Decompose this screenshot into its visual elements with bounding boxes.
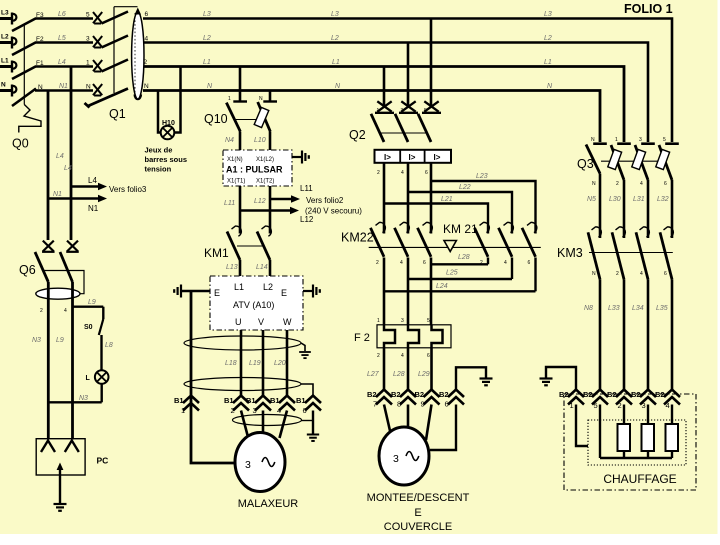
svg-text:5: 5 (663, 137, 666, 143)
bus N (143, 91, 600, 143)
svg-text:FOLIO 1: FOLIO 1 (624, 2, 673, 16)
svg-text:N1: N1 (59, 83, 68, 90)
svg-text:L20: L20 (274, 360, 286, 367)
interlock triangle (444, 241, 456, 252)
svg-text:L2: L2 (331, 35, 339, 42)
svg-text:N1: N1 (53, 191, 62, 198)
svg-text:L1: L1 (203, 59, 211, 66)
motor M1 3~ (235, 433, 285, 492)
svg-text:B2: B2 (391, 390, 401, 399)
wires N8 L33 L34 L35 (584, 279, 672, 389)
svg-text:6: 6 (423, 260, 426, 266)
svg-text:L2: L2 (1, 34, 9, 41)
arrow L11 vers folio2 (270, 184, 344, 205)
wire labels L13 L14 (226, 264, 268, 271)
wire L28 crossover (431, 254, 488, 264)
svg-text:4: 4 (400, 260, 403, 266)
wire L23 to KM21 (431, 173, 536, 234)
connector B1-2 (224, 396, 249, 416)
wire labels L18 L19 L20 (225, 360, 286, 367)
svg-text:Jeux de: Jeux de (145, 146, 173, 155)
svg-text:6: 6 (427, 353, 430, 359)
ATV right earth (303, 285, 320, 298)
svg-text:B1: B1 (246, 396, 256, 405)
wire L21 to KM21 (384, 196, 488, 234)
svg-text:Q1: Q1 (109, 107, 126, 121)
arrow L12 vers folio2 (240, 207, 362, 225)
svg-text:N8: N8 (584, 305, 593, 312)
bus L1 (143, 67, 624, 143)
overload relay F2 (377, 318, 451, 359)
svg-text:L2: L2 (203, 35, 211, 42)
svg-text:E: E (414, 507, 421, 519)
wire labels L11 L12 (224, 198, 266, 207)
heater resistor R3 (666, 424, 679, 451)
svg-text:L2: L2 (544, 35, 552, 42)
svg-text:1: 1 (570, 401, 574, 410)
svg-text:3: 3 (639, 137, 642, 143)
power supply A1 PULSAR (223, 150, 292, 186)
svg-text:N3: N3 (32, 337, 41, 344)
svg-text:1: 1 (86, 60, 90, 67)
svg-text:L4: L4 (88, 176, 97, 185)
wire N to Q10 (269, 91, 272, 101)
svg-text:5: 5 (424, 108, 427, 114)
svg-text:MALAXEUR: MALAXEUR (238, 498, 299, 510)
svg-text:5: 5 (86, 12, 90, 19)
connector B1-1 (174, 396, 199, 416)
svg-text:2: 2 (377, 353, 380, 359)
svg-text:N5: N5 (587, 196, 596, 203)
svg-text:6: 6 (145, 11, 149, 18)
indicator lamp H10 (161, 120, 175, 139)
svg-text:MONTEE/DESCENT: MONTEE/DESCENT (367, 492, 470, 504)
wire L12 (269, 186, 272, 234)
Q1 interlock oval (132, 8, 144, 100)
svg-text:6: 6 (303, 406, 307, 415)
svg-text:V: V (258, 317, 264, 327)
label MONTEE/DESCENTE COUVERCLE (367, 492, 470, 533)
wire PE to motor 1 (191, 291, 236, 463)
Q6 interlock oval (36, 288, 80, 299)
svg-text:6: 6 (445, 400, 449, 409)
svg-text:L14: L14 (256, 264, 268, 271)
svg-text:L28: L28 (458, 254, 470, 261)
svg-text:4: 4 (64, 308, 67, 314)
svg-text:L: L (86, 375, 91, 382)
breaker Q2 input marks (375, 101, 441, 114)
bus labels column 2 (331, 11, 341, 90)
wire to A1 inputs (240, 132, 270, 151)
incomer terminals L3 L2 L1 N (0, 10, 16, 97)
svg-text:PC: PC (97, 456, 109, 466)
svg-text:L32: L32 (657, 196, 669, 203)
wires to ATV (240, 260, 270, 276)
wire L2 to Q2 (407, 43, 410, 108)
wire L11 (239, 186, 242, 234)
Q3 output terminals (592, 181, 667, 187)
svg-text:X1(N): X1(N) (227, 157, 243, 163)
Q3 input terminal bars (591, 137, 679, 144)
wire L3 to Q2 (430, 19, 433, 108)
svg-text:L34: L34 (632, 305, 644, 312)
svg-text:L4: L4 (58, 59, 66, 66)
svg-text:L21: L21 (441, 196, 453, 203)
connector B1-4 (270, 396, 295, 416)
svg-text:tension: tension (145, 165, 172, 174)
svg-text:L18: L18 (225, 360, 237, 367)
svg-text:N: N (86, 84, 91, 91)
switch-fuse Q1 (85, 7, 138, 108)
svg-text:Q10: Q10 (204, 112, 228, 126)
svg-text:N: N (592, 181, 596, 187)
breaker Q2 blades (371, 114, 431, 142)
svg-text:KM 21: KM 21 (443, 222, 478, 236)
heater wires (600, 405, 672, 459)
svg-text:X1(T2): X1(T2) (256, 179, 274, 185)
svg-text:L10: L10 (254, 137, 266, 144)
Q2 output terminals 2 4 6 (377, 170, 428, 176)
svg-text:N: N (144, 83, 149, 90)
B2-6 earth (456, 367, 493, 389)
KM3 output terminals (592, 271, 667, 277)
svg-text:5: 5 (427, 318, 430, 324)
svg-text:2: 2 (377, 170, 380, 176)
svg-text:Q2: Q2 (349, 128, 366, 142)
svg-text:L6: L6 (58, 11, 66, 18)
svg-text:X1(L2): X1(L2) (256, 157, 274, 163)
svg-text:3: 3 (393, 453, 399, 465)
svg-text:4: 4 (640, 181, 643, 187)
bus L3 (143, 19, 672, 143)
svg-text:L12: L12 (300, 215, 314, 224)
svg-text:L5: L5 (58, 35, 66, 42)
chauffage chassis dotted box (588, 420, 686, 465)
bus L2 (143, 43, 648, 143)
wire L9 down to PC (71, 282, 74, 440)
svg-text:N: N (1, 82, 6, 89)
Q2 magnetic trip I> box (375, 150, 452, 163)
svg-text:6: 6 (425, 170, 428, 176)
svg-text:3: 3 (253, 406, 257, 415)
svg-text:L3: L3 (331, 11, 339, 18)
svg-text:(240 V secouru): (240 V secouru) (305, 207, 362, 216)
motor M2 3~ (379, 427, 429, 485)
PC earth (54, 475, 67, 511)
wire L1 to lamp (174, 67, 181, 133)
socket outlet PC (36, 439, 108, 475)
svg-text:2: 2 (376, 260, 379, 266)
svg-text:8: 8 (397, 400, 401, 409)
svg-text:B2: B2 (367, 390, 377, 399)
svg-text:L4: L4 (56, 153, 64, 160)
wire labels N4 L10 (225, 137, 266, 144)
svg-text:L1: L1 (234, 282, 244, 292)
contactor KM1 (227, 226, 271, 260)
heater resistor R2 (642, 424, 655, 451)
wires L27 L28 L29 (367, 348, 432, 390)
wires N5 L30 L31 L32 (587, 174, 672, 239)
svg-text:L11: L11 (300, 184, 313, 193)
svg-text:Q6: Q6 (19, 263, 36, 277)
svg-text:B1: B1 (174, 396, 184, 405)
svg-text:6: 6 (528, 260, 531, 266)
svg-text:L23: L23 (476, 173, 488, 180)
switch Q0 (12, 19, 41, 133)
wire PE into chauffage (576, 405, 588, 447)
wire L22 to KM21 (408, 184, 512, 234)
svg-text:L30: L30 (609, 196, 621, 203)
svg-text:KM1: KM1 (204, 246, 229, 260)
svg-text:4: 4 (504, 260, 507, 266)
heater resistor R1 (618, 424, 631, 451)
svg-text:9: 9 (421, 400, 425, 409)
svg-text:W: W (283, 317, 292, 327)
svg-text:Q0: Q0 (12, 137, 29, 151)
svg-text:L9: L9 (56, 337, 64, 344)
svg-text:B2: B2 (439, 390, 449, 399)
connector B2-1 (559, 390, 584, 411)
svg-text:3: 3 (401, 108, 404, 114)
switch S0 (84, 319, 113, 371)
wire labels N3 L9 (32, 308, 67, 344)
wire N1 drop (47, 91, 50, 241)
wire N3 down to PC (47, 282, 50, 440)
svg-text:ATV (A10): ATV (A10) (233, 300, 274, 310)
mechanical link KM22-KM21 (369, 246, 541, 248)
svg-text:B1: B1 (224, 396, 234, 405)
svg-text:N: N (592, 271, 596, 277)
contactor KM3 (588, 227, 673, 279)
svg-text:L3: L3 (1, 10, 9, 17)
connector B2-5 (583, 390, 608, 411)
svg-text:2: 2 (618, 401, 622, 410)
svg-text:L9: L9 (88, 299, 96, 306)
svg-text:L29: L29 (418, 371, 430, 378)
svg-text:L1: L1 (1, 58, 9, 65)
svg-text:N: N (259, 96, 263, 102)
arrow L4 vers folio3 (56, 153, 147, 194)
svg-text:L11: L11 (224, 200, 235, 207)
svg-text:6: 6 (664, 181, 667, 187)
connector B2-7 (367, 390, 392, 409)
svg-text:L33: L33 (608, 305, 620, 312)
Q10 fuse element (254, 107, 269, 127)
breaker Q3 (586, 145, 672, 181)
svg-text:L3: L3 (544, 11, 552, 18)
svg-text:N: N (591, 137, 595, 143)
svg-text:COUVERCLE: COUVERCLE (384, 521, 452, 533)
svg-text:2: 2 (616, 181, 619, 187)
svg-text:2: 2 (40, 308, 43, 314)
svg-text:KM22: KM22 (341, 231, 374, 245)
wire 4 down (407, 163, 410, 234)
wire N to lamp (158, 91, 161, 133)
svg-text:4: 4 (640, 271, 643, 277)
svg-text:L31: L31 (633, 196, 645, 203)
svg-text:3: 3 (86, 36, 90, 43)
svg-text:2: 2 (231, 406, 235, 415)
svg-text:Vers folio3: Vers folio3 (109, 185, 147, 194)
wire N3 return (48, 395, 101, 402)
wire L1 to Q10 (239, 67, 242, 101)
connector B2-2 (607, 390, 632, 411)
svg-text:L12: L12 (254, 198, 266, 205)
cable shield 2 (184, 378, 313, 396)
connector B2-9 (415, 390, 440, 409)
svg-text:1: 1 (377, 318, 380, 324)
arrow N1 vers folio3 (48, 191, 107, 213)
svg-text:I>: I> (409, 153, 416, 162)
svg-text:4: 4 (401, 170, 404, 176)
svg-text:B2: B2 (415, 390, 425, 399)
svg-text:L28: L28 (393, 371, 405, 378)
svg-text:E: E (281, 288, 287, 298)
svg-text:4: 4 (401, 353, 404, 359)
svg-text:L27: L27 (367, 371, 380, 378)
svg-text:L2: L2 (263, 282, 273, 292)
svg-text:E: E (214, 288, 220, 298)
svg-text:1: 1 (615, 137, 618, 143)
connector B1-6 (296, 396, 321, 416)
cable shield 1 (184, 336, 311, 358)
wire L25 crossover (408, 258, 512, 280)
Q1 output terminal digits 6 4 2 N (144, 11, 150, 90)
svg-text:I>: I> (384, 153, 391, 162)
svg-text:barres sous: barres sous (145, 155, 188, 164)
svg-text:3: 3 (642, 401, 646, 410)
branch L9 to switch S0 (73, 299, 104, 319)
bus labels column 1 (203, 11, 213, 90)
svg-text:L22: L22 (459, 184, 471, 191)
svg-text:L3: L3 (203, 11, 211, 18)
svg-text:B1: B1 (270, 396, 280, 405)
svg-text:L1: L1 (544, 59, 552, 66)
wire 2 down (383, 163, 386, 234)
svg-text:L35: L35 (656, 305, 668, 312)
connector B2-6 (439, 390, 464, 409)
drive ATV (A10) (210, 276, 303, 330)
shield earth at B1-6 (307, 411, 319, 441)
svg-text:A1 : PULSAR: A1 : PULSAR (226, 165, 283, 175)
A1 earth (292, 151, 309, 164)
svg-text:1: 1 (228, 96, 231, 102)
contactor KM22 (371, 222, 433, 256)
wire L4 drop (70, 67, 73, 241)
svg-text:4: 4 (666, 401, 670, 410)
svg-text:S0: S0 (84, 324, 93, 331)
chauffage earth (540, 367, 577, 390)
wire 6 down (430, 163, 433, 234)
svg-text:N4: N4 (225, 137, 234, 144)
svg-text:7: 7 (373, 400, 377, 409)
connector B2-8 (391, 390, 416, 409)
bus labels column 3 (544, 11, 553, 90)
lamp L (86, 370, 109, 402)
svg-text:L24: L24 (436, 283, 448, 290)
connector B2-4 (655, 390, 680, 411)
KM22 KM21 output terminals (376, 260, 531, 266)
svg-text:L4: L4 (64, 165, 72, 172)
svg-text:B1: B1 (296, 396, 306, 405)
svg-text:L13: L13 (226, 264, 238, 271)
svg-text:L1: L1 (332, 59, 340, 66)
svg-text:1: 1 (377, 108, 380, 114)
svg-text:Vers folio2: Vers folio2 (306, 196, 344, 205)
wire L1 to Q2 (383, 67, 386, 108)
svg-text:6: 6 (664, 271, 667, 277)
breaker Q10 (226, 96, 277, 132)
chauffage enclosure (564, 394, 696, 490)
svg-text:L25: L25 (446, 270, 458, 277)
svg-text:CHAUFFAGE: CHAUFFAGE (603, 472, 676, 486)
contactor KM21 (475, 222, 537, 256)
note jeux de barres sous tension (145, 146, 188, 174)
svg-text:I>: I> (434, 153, 441, 162)
svg-text:L8: L8 (105, 342, 113, 349)
svg-text:4: 4 (277, 406, 281, 415)
svg-text:N3: N3 (79, 395, 88, 402)
svg-text:N1: N1 (88, 204, 99, 213)
svg-text:H10: H10 (162, 120, 175, 127)
svg-text:X1(T1): X1(T1) (227, 179, 245, 185)
wire B2-6 to motor frame (430, 405, 456, 451)
svg-text:5: 5 (594, 401, 598, 410)
svg-text:U: U (235, 317, 242, 327)
svg-text:2: 2 (144, 59, 148, 66)
motor 2 feeds (384, 405, 432, 441)
breaker Q6 (35, 241, 84, 294)
wires KM22 outputs to F2 (384, 258, 431, 326)
wires U V W (241, 330, 287, 396)
svg-text:3: 3 (401, 318, 404, 324)
connector B1-3 (246, 396, 271, 416)
ATV left earth (174, 285, 210, 298)
svg-text:1: 1 (181, 406, 185, 415)
cable shield 3 (233, 415, 314, 426)
svg-text:KM3: KM3 (557, 246, 583, 260)
svg-text:Q3: Q3 (577, 157, 594, 171)
wire L24 crossover (384, 258, 536, 292)
svg-text:F 2: F 2 (354, 332, 370, 344)
wires L6 L5 L4 N1 from Q0 to Q1 (35, 11, 93, 91)
svg-text:L19: L19 (249, 360, 261, 367)
connector B2-3 (631, 390, 656, 411)
svg-text:3: 3 (245, 459, 251, 471)
svg-text:4: 4 (145, 36, 149, 43)
Q0 output terminal labels F3 F2 F1 N (36, 12, 44, 91)
heater common bus (600, 451, 672, 458)
svg-text:2: 2 (616, 271, 619, 277)
Q3 fuse elements (608, 149, 670, 169)
motor 1 feeds (241, 411, 287, 439)
